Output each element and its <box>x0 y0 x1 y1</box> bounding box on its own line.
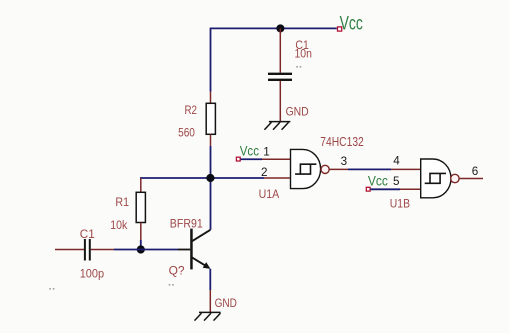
ground symbol top <box>264 122 290 130</box>
wire pin 5 stub <box>400 188 421 190</box>
resistor R1 pin top <box>140 178 142 192</box>
wire pin 5 net <box>370 188 400 190</box>
transistor Q? base lead <box>178 249 190 251</box>
wire trunk vertical upper <box>210 28 212 92</box>
ground pin lower <box>209 290 211 312</box>
wire trunk vertical lower <box>210 146 212 230</box>
wire pin 4 stub <box>391 168 420 170</box>
ground symbol bottom <box>195 312 221 320</box>
Vcc pin square gate pin 5 <box>366 187 370 191</box>
svg-text:6: 6 <box>472 165 479 178</box>
artifact dots under 10n <box>296 66 298 68</box>
wire emitter down <box>209 269 211 290</box>
resistor R2 pin top <box>210 92 212 104</box>
svg-text:GND: GND <box>286 106 309 118</box>
transistor Q? emitter arrowhead <box>203 262 211 269</box>
svg-text:GND: GND <box>215 298 237 310</box>
svg-text:Vcc: Vcc <box>240 143 260 158</box>
svg-text:C1: C1 <box>80 229 95 241</box>
wire cap to base node <box>114 249 141 251</box>
resistor R2 body <box>206 103 215 134</box>
transistor Q? base bar <box>190 229 193 270</box>
wire net 3-4 <box>348 168 391 170</box>
capacitor C1 plates <box>268 73 292 75</box>
capacitor C1 (100p) plates <box>84 239 86 261</box>
Vcc pin square top <box>338 27 342 31</box>
svg-text:U1B: U1B <box>390 198 410 210</box>
svg-text:74HC132: 74HC132 <box>320 135 364 149</box>
capacitor C1 pin upper <box>279 28 281 72</box>
artifact dots left <box>49 288 51 290</box>
svg-text:R1: R1 <box>115 197 129 209</box>
wire pin 1 <box>241 158 263 160</box>
U1B schmitt symbol <box>425 173 446 183</box>
svg-text:10k: 10k <box>110 220 127 232</box>
svg-text:100p: 100p <box>80 269 104 281</box>
U1A schmitt symbol <box>295 164 316 174</box>
wire base node to transistor <box>141 249 178 251</box>
svg-text:560: 560 <box>178 127 195 139</box>
U1A output bubble <box>321 165 329 173</box>
transistor Q? emitter stroke <box>192 257 207 266</box>
svg-text:1: 1 <box>263 145 270 158</box>
svg-text:10n: 10n <box>295 49 312 61</box>
svg-text:Vcc: Vcc <box>340 13 363 34</box>
resistor R1 pin bottom <box>140 223 142 241</box>
svg-text:Vcc: Vcc <box>368 173 388 188</box>
capacitor C1 pin lower <box>279 81 281 122</box>
capacitor C1 (100p) pin left <box>55 249 84 251</box>
op-amp U1A nand gate body <box>291 149 321 188</box>
capacitor C1 (100p) pin right <box>91 249 114 251</box>
junction dot top rail / C1 <box>276 24 284 32</box>
wire R1 to base node <box>140 240 142 250</box>
transistor Q? collector stroke <box>192 230 211 242</box>
op-amp U1B nand gate body <box>421 159 451 198</box>
svg-text:4: 4 <box>393 154 400 167</box>
wire top rail Vcc <box>211 27 337 29</box>
junction dot collector node <box>206 174 214 182</box>
svg-text:R2: R2 <box>185 105 198 117</box>
U1B output bubble <box>451 174 459 182</box>
svg-text:5: 5 <box>393 175 400 188</box>
wire pin 6 output <box>459 178 483 180</box>
svg-text:3: 3 <box>341 155 348 168</box>
resistor R2 pin bottom <box>210 134 212 146</box>
artifact dots under Q? <box>169 284 171 286</box>
svg-text:Q?: Q? <box>169 266 185 278</box>
svg-text:U1A: U1A <box>259 189 280 201</box>
wire pin 2 stub <box>264 177 291 179</box>
svg-text:BFR91: BFR91 <box>170 217 203 231</box>
junction dot base node <box>137 245 145 253</box>
resistor R1 body <box>136 192 145 222</box>
wire pin 3 stub <box>330 168 349 170</box>
svg-text:2: 2 <box>261 166 268 179</box>
Vcc pin square gate pin 1 <box>236 157 240 161</box>
wire mid horizontal <box>140 177 264 179</box>
